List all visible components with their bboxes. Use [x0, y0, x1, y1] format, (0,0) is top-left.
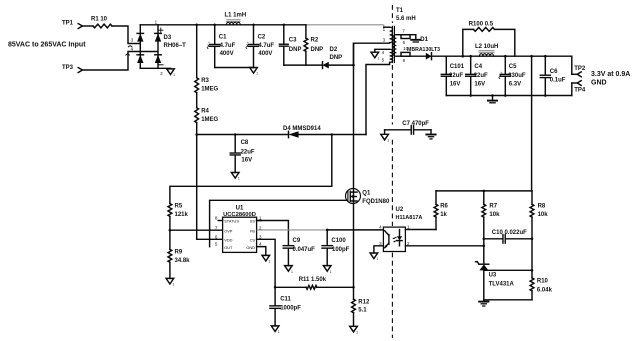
svg-text:C9: C9 — [293, 238, 301, 244]
svg-text:1: 1 — [278, 330, 280, 334]
resistor R8 — [531, 191, 533, 204]
svg-text:TP4: TP4 — [574, 88, 586, 94]
wire output rail — [446, 55, 572, 57]
bridge diode lower-right — [155, 54, 161, 56]
wire — [432, 55, 447, 57]
svg-text:22uF: 22uF — [449, 73, 463, 79]
wire — [299, 134, 366, 136]
ground (C9) — [285, 266, 293, 272]
svg-text:VDD: VDD — [224, 238, 232, 243]
ground (aux top) — [371, 52, 379, 58]
ground (secondary tap) — [411, 39, 420, 41]
ground (C8) — [231, 173, 239, 179]
svg-text:RH06–T: RH06–T — [164, 43, 187, 49]
svg-text:U2: U2 — [396, 207, 404, 213]
svg-text:16V: 16V — [450, 81, 461, 87]
resistor R9 — [168, 249, 172, 262]
wire — [169, 262, 171, 278]
svg-text:3.3V at 0.9A: 3.3V at 0.9A — [591, 71, 630, 78]
svg-text:1: 1 — [407, 224, 410, 229]
svg-text:STATUS: STATUS — [224, 219, 239, 224]
svg-text:C5: C5 — [509, 64, 517, 70]
svg-text:7: 7 — [402, 28, 405, 33]
svg-text:D2: D2 — [330, 47, 338, 53]
T1 aux winding (4-5) — [390, 49, 393, 62]
T1 secondary winding (7-8) — [393, 35, 396, 56]
svg-text:OVP: OVP — [224, 228, 233, 233]
svg-text:R1 10: R1 10 — [91, 16, 108, 22]
ground (C100) — [323, 266, 331, 272]
svg-text:1: 1 — [387, 139, 389, 143]
svg-text:10k: 10k — [538, 212, 549, 218]
capacitor C3 — [283, 25, 285, 44]
wire OVP — [170, 229, 223, 231]
resistor R4 — [196, 93, 198, 108]
resistor R5 — [168, 204, 172, 217]
svg-text:1: 1 — [238, 177, 240, 181]
svg-text:U1: U1 — [236, 205, 244, 211]
svg-text:1: 1 — [173, 73, 175, 77]
svg-text:+: + — [500, 71, 502, 75]
svg-text:1MEG: 1MEG — [201, 87, 218, 93]
wire — [83, 52, 158, 71]
svg-text:R100 0.5: R100 0.5 — [469, 21, 494, 27]
svg-text:4: 4 — [379, 224, 382, 229]
resistor R3 — [196, 25, 198, 78]
wire secondary bottom tap — [396, 55, 425, 57]
svg-text:22uF: 22uF — [241, 150, 255, 156]
wire drain — [353, 43, 355, 189]
svg-text:DNP: DNP — [311, 47, 324, 53]
svg-text:1MEG: 1MEG — [201, 117, 218, 123]
svg-text:16V: 16V — [474, 81, 485, 87]
svg-text:1: 1 — [256, 72, 258, 76]
ground (output) — [492, 96, 494, 100]
svg-text:R8: R8 — [538, 204, 546, 210]
svg-text:1000pF: 1000pF — [280, 306, 301, 312]
svg-text:C3: C3 — [289, 37, 297, 43]
T1 core — [391, 26, 393, 62]
resistor R12 — [353, 287, 355, 299]
svg-text:C2: C2 — [258, 34, 266, 40]
wire secondary top tap — [396, 34, 415, 36]
T1 pin box 10-8 — [401, 52, 410, 56]
resistor R10 — [531, 239, 533, 278]
svg-text:5: 5 — [215, 242, 218, 247]
wire pin5 down — [366, 62, 390, 134]
svg-text:TP2: TP2 — [574, 66, 586, 72]
svg-text:22uF: 22uF — [474, 73, 488, 79]
test point TP4 — [571, 83, 573, 96]
svg-text:3: 3 — [383, 37, 386, 42]
svg-text:L2 10uH: L2 10uH — [475, 44, 498, 50]
svg-text:U3: U3 — [489, 273, 497, 279]
wire aux/VDD node — [197, 134, 289, 136]
diode bridge D3 frame — [139, 25, 141, 69]
svg-text:D4 MMSD914: D4 MMSD914 — [283, 126, 321, 132]
capacitor C1 — [214, 25, 216, 44]
svg-text:1: 1 — [356, 331, 358, 335]
capacitor C2 — [253, 25, 255, 44]
svg-text:DNP: DNP — [289, 47, 302, 53]
svg-text:C100: C100 — [331, 238, 346, 244]
svg-text:L1 1mH: L1 1mH — [225, 12, 247, 18]
svg-text:CS: CS — [250, 238, 256, 243]
bridge diode upper-left — [137, 32, 143, 34]
wire VDD line down to pin6 — [196, 123, 198, 240]
wire — [317, 286, 354, 288]
resistor R100 — [463, 29, 474, 56]
svg-text:6: 6 — [403, 40, 406, 45]
resistor R2 — [305, 25, 307, 38]
svg-text:34.8k: 34.8k — [175, 258, 191, 264]
svg-text:0.047uF: 0.047uF — [293, 247, 316, 253]
svg-text:R12: R12 — [358, 299, 370, 305]
svg-text:C6: C6 — [550, 69, 558, 75]
svg-text:R11 1.50k: R11 1.50k — [299, 277, 327, 283]
U2 phototransistor — [388, 235, 390, 245]
svg-text:DNP: DNP — [330, 55, 343, 61]
svg-text:400V: 400V — [258, 51, 272, 57]
capacitor C4 — [470, 56, 472, 73]
resistor R11 — [306, 285, 317, 289]
svg-text:T1: T1 — [396, 8, 404, 14]
svg-text:+: + — [208, 41, 210, 45]
svg-text:R6: R6 — [440, 204, 448, 210]
svg-text:C4: C4 — [474, 64, 482, 70]
wire pin3 to switch node — [354, 43, 390, 66]
svg-text:TP1: TP1 — [62, 21, 74, 27]
ground (bridge negative) — [167, 69, 175, 75]
svg-text:FQD1N80: FQD1N80 — [362, 199, 390, 205]
svg-text:85VAC to 265VAC Input: 85VAC to 265VAC Input — [8, 41, 86, 48]
wire gate drive — [210, 200, 349, 246]
wire TLV431 ref — [484, 269, 532, 271]
wire source — [353, 200, 355, 287]
svg-text:R3: R3 — [201, 78, 209, 84]
T1 pin box 7-6 — [401, 35, 410, 39]
wire opto emitter (pin3) to ground — [374, 246, 384, 253]
wire aux sense — [170, 135, 332, 204]
svg-text:400V: 400V — [220, 51, 234, 57]
resistor R1 — [93, 24, 112, 28]
svg-text:100pF: 100pF — [332, 247, 350, 253]
svg-text:C8: C8 — [241, 140, 249, 146]
wire snubber bottom — [284, 64, 323, 66]
svg-text:C1: C1 — [219, 34, 227, 40]
capacitor C9 — [283, 245, 293, 247]
resistor R6 — [435, 191, 437, 204]
capacitor C11 — [274, 287, 276, 305]
svg-text:8: 8 — [215, 216, 218, 221]
T1 primary winding (1-3) — [384, 26, 390, 28]
svg-text:5.1: 5.1 — [358, 308, 367, 314]
svg-text:1: 1 — [173, 283, 175, 287]
ground (C1/C2) — [250, 68, 258, 74]
wire opto pin1 to R6 — [405, 229, 436, 231]
U2 arrows — [393, 237, 396, 239]
svg-text:C11: C11 — [280, 296, 291, 302]
wire 3.3V sense drop — [531, 56, 533, 191]
svg-text:TP3: TP3 — [62, 65, 74, 71]
bridge diode upper-right — [155, 32, 161, 34]
diode D1 — [426, 53, 432, 60]
wire SS — [257, 221, 289, 246]
wire FB to opto — [257, 229, 328, 231]
ground (C11) — [271, 326, 279, 332]
svg-text:H11A817A: H11A817A — [396, 215, 423, 221]
svg-text:6.3V: 6.3V — [509, 81, 521, 87]
capacitor C100 — [326, 230, 328, 245]
svg-text:16V: 16V — [241, 157, 252, 163]
test point TP2 — [571, 56, 573, 74]
ground (U2 emitter) — [370, 253, 378, 259]
svg-text:4.7uF: 4.7uF — [220, 43, 236, 49]
svg-text:5.6 mH: 5.6 mH — [396, 16, 416, 22]
capacitor C101 — [445, 56, 447, 73]
svg-text:GND: GND — [246, 245, 255, 250]
svg-text:330uF: 330uF — [508, 73, 526, 79]
svg-text:MBRA130LT3: MBRA130LT3 — [407, 47, 440, 53]
wire U1 GND — [257, 247, 266, 256]
bridge diode lower-left — [137, 54, 143, 56]
svg-text:4.7uF: 4.7uF — [258, 43, 274, 49]
svg-text:R2: R2 — [311, 37, 319, 43]
svg-text:+: + — [247, 41, 249, 45]
wire CS — [257, 239, 276, 287]
wire — [415, 35, 417, 40]
svg-text:D3: D3 — [164, 35, 172, 41]
svg-text:R4: R4 — [201, 108, 209, 114]
wire R10 bottom — [484, 300, 532, 301]
svg-text:1: 1 — [383, 27, 386, 32]
svg-text:GND: GND — [591, 80, 607, 87]
wire cathode line — [483, 239, 485, 264]
ground (C7 secondary side) — [430, 130, 432, 134]
wire opto pin2 (LED cathode) — [405, 245, 483, 247]
svg-text:4: 4 — [382, 50, 385, 55]
svg-text:D1: D1 — [420, 37, 428, 43]
ground (R12) — [350, 326, 358, 332]
ground (R9) — [166, 278, 174, 284]
svg-text:1: 1 — [291, 270, 293, 274]
ground (U1) — [262, 255, 270, 261]
svg-text:6.04k: 6.04k — [537, 287, 553, 293]
wire — [83, 25, 94, 27]
wire — [329, 64, 354, 66]
U2 LED — [399, 230, 401, 237]
svg-text:1: 1 — [268, 260, 270, 264]
diode D4 — [289, 131, 299, 137]
capacitor C5 — [504, 56, 506, 73]
U1 pin 8 STATUS — [218, 220, 222, 222]
svg-text:8: 8 — [403, 58, 406, 63]
svg-text:R7: R7 — [489, 204, 497, 210]
U1 pin 1 SS — [257, 220, 262, 222]
capacitor C8 — [234, 135, 236, 153]
svg-text:121k: 121k — [175, 212, 189, 218]
svg-text:C101: C101 — [450, 64, 465, 70]
svg-text:10k: 10k — [489, 212, 500, 218]
wire pin4 to ground — [375, 49, 390, 52]
wire — [112, 26, 140, 44]
svg-text:OUT: OUT — [224, 245, 233, 250]
resistor R7 — [483, 191, 485, 204]
wire C1-C2 bottom — [215, 67, 254, 69]
svg-text:TLV431A: TLV431A — [489, 281, 515, 287]
svg-text:1: 1 — [155, 19, 158, 24]
svg-text:SS: SS — [250, 219, 256, 224]
wire: rectified HV rail — [158, 24, 306, 26]
svg-text:C10 0.022uF: C10 0.022uF — [492, 230, 527, 236]
wire feedback top rail — [436, 190, 532, 192]
svg-text:R5: R5 — [175, 204, 183, 210]
wire — [275, 286, 306, 288]
svg-text:Q1: Q1 — [362, 190, 371, 196]
AC marks — [128, 46, 131, 47]
svg-text:FB: FB — [250, 228, 255, 233]
svg-text:R10: R10 — [537, 279, 549, 285]
isolation boundary dashed line — [391, 5, 393, 23]
diode D2 — [323, 62, 329, 69]
wire — [169, 216, 171, 249]
ground (U3/R10) — [479, 301, 488, 303]
svg-text:2: 2 — [160, 71, 163, 76]
svg-text:1: 1 — [377, 257, 379, 261]
svg-text:5: 5 — [382, 58, 385, 63]
capacitor C6 — [544, 56, 546, 74]
transistor Q1 FQD1N80 — [346, 189, 361, 204]
svg-text:R9: R9 — [175, 249, 183, 255]
svg-text:1: 1 — [377, 56, 379, 60]
wire output bottom rail — [446, 95, 572, 97]
svg-text:3: 3 — [131, 38, 134, 43]
shunt regulator U3 TLV431A — [479, 263, 489, 265]
ground (C7 primary side) — [381, 134, 389, 140]
svg-text:1k: 1k — [440, 212, 447, 218]
svg-text:1: 1 — [330, 270, 332, 274]
svg-text:0.1uF: 0.1uF — [550, 78, 566, 84]
svg-text:C7 470pF: C7 470pF — [402, 121, 429, 127]
